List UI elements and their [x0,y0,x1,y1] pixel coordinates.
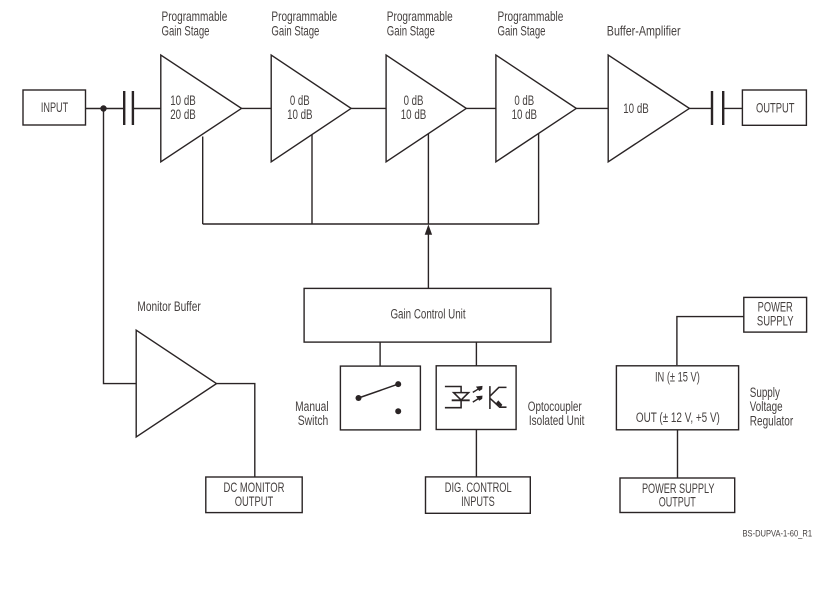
svg-text:0 dB: 0 dB [514,93,534,108]
svg-text:Programmable: Programmable [271,9,337,25]
svg-text:IN (± 15 V): IN (± 15 V) [655,371,700,385]
DIG CONTROL INPUTS box [426,477,531,513]
amplifier stage 4 [496,55,576,162]
svg-text:DIG. CONTROL: DIG. CONTROL [445,482,512,496]
wire input node down to monitor buffer [104,109,137,384]
wire stage2 to stage3 [351,107,386,109]
amplifier stage 1 [161,55,242,162]
capacitor C2 [712,91,723,125]
svg-text:Gain Stage: Gain Stage [162,24,210,39]
wire gain control bus [203,223,539,225]
wire stage4 to buffer [576,107,608,109]
svg-text:SUPPLY: SUPPLY [757,314,794,329]
svg-text:10 dB: 10 dB [401,108,427,123]
svg-text:10 dB: 10 dB [170,94,196,109]
wire capacitor to stage 1 [134,108,161,110]
manual switch box [340,366,420,430]
amplifier stage 3 [386,55,466,162]
svg-text:10 dB: 10 dB [623,102,649,117]
svg-text:Monitor Buffer: Monitor Buffer [137,298,200,314]
svg-text:Buffer-Amplifier: Buffer-Amplifier [607,23,681,38]
svg-text:Switch: Switch [298,413,329,429]
switch S1 [356,381,402,414]
svg-text:DC MONITOR: DC MONITOR [224,481,285,496]
wire gain tap stage 1 [202,137,204,225]
wire input to capacitor [86,108,124,110]
svg-text:Regulator: Regulator [750,413,793,429]
svg-text:Gain Control Unit: Gain Control Unit [390,307,466,322]
light arrow 1 [473,386,483,393]
wire optocoupler to digital inputs [475,430,477,477]
svg-text:POWER SUPPLY: POWER SUPPLY [642,482,715,496]
light arrow 2 [473,396,483,403]
svg-text:OUTPUT: OUTPUT [756,101,795,116]
wire monitor buffer to DC monitor output [217,384,255,477]
svg-text:10 dB: 10 dB [512,108,538,123]
LED cathode lead [445,400,461,407]
supply voltage regulator box [616,366,738,430]
wire gain control unit to bus with arrow [425,224,432,288]
optocoupler box [436,366,516,430]
amplifier stage 2 [271,55,351,162]
LED D1 [454,393,469,400]
wire GCU to optocoupler [475,342,477,366]
optocoupler U6 symbol [445,386,507,409]
wire gain tap stage 3 [427,134,429,224]
svg-text:10 dB: 10 dB [287,108,313,123]
svg-text:INPUTS: INPUTS [461,496,495,510]
LED cathode bar [452,399,470,401]
svg-text:BS-DUPVA-1-60_R1: BS-DUPVA-1-60_R1 [743,528,813,539]
wire stage1 to stage2 [242,107,272,109]
svg-text:Programmable: Programmable [498,9,564,25]
svg-text:INPUT: INPUT [41,102,68,116]
phototransistor Q1 [490,386,507,409]
svg-text:Programmable: Programmable [162,9,228,25]
wire buffer to capacitor [689,107,711,109]
svg-text:OUT (± 12 V, +5 V): OUT (± 12 V, +5 V) [636,410,720,426]
DC MONITOR OUTPUT box [206,477,302,513]
svg-text:Gain Stage: Gain Stage [271,24,319,39]
svg-text:Gain Stage: Gain Stage [387,24,435,39]
gain control unit box [304,288,551,342]
node input junction [100,105,106,111]
POWER SUPPLY OUTPUT box [620,478,735,513]
svg-text:0 dB: 0 dB [290,93,310,108]
buffer amplifier U5 [608,55,689,162]
wire regulator to power supply output [677,430,679,479]
capacitor C1 [124,91,133,125]
svg-text:0 dB: 0 dB [404,93,424,108]
wire gain tap stage 2 [311,135,313,225]
monitor buffer amplifier [136,330,216,437]
OUTPUT box [742,90,806,125]
svg-text:Gain Stage: Gain Stage [498,24,546,39]
svg-text:POWER: POWER [758,301,793,315]
svg-text:Isolated Unit: Isolated Unit [529,412,585,428]
wire power supply to regulator [677,317,744,366]
svg-text:20 dB: 20 dB [170,108,196,123]
wire stage3 to stage4 [466,107,496,109]
svg-text:OUTPUT: OUTPUT [659,496,696,510]
LED anode lead [445,387,461,393]
wire capacitor to output [724,107,742,109]
wire gain tap stage 4 [538,133,540,224]
svg-text:Programmable: Programmable [387,9,453,25]
INPUT box [23,90,86,125]
svg-text:OUTPUT: OUTPUT [235,495,274,510]
wire GCU to manual switch [379,342,381,366]
POWER SUPPLY box [744,297,807,332]
